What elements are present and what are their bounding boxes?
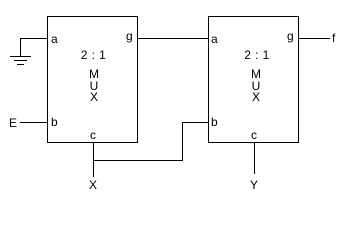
label E <box>9 116 17 130</box>
wire: E to U1 pin b <box>20 122 47 123</box>
label g (U2) <box>287 29 294 43</box>
label X <box>89 178 97 192</box>
mux U1 box <box>47 16 138 143</box>
label c (U1) <box>90 128 96 142</box>
wire: horizontal run X net <box>93 160 183 161</box>
label b (U1) <box>51 115 58 129</box>
label 2:1 (U1) <box>48 48 139 62</box>
wire: U1 g to U2 a <box>138 38 208 39</box>
label f <box>332 31 335 45</box>
label a (U2) <box>211 32 218 46</box>
ground <box>20 38 21 56</box>
mux U2 box <box>208 16 299 143</box>
label Y <box>250 178 258 192</box>
wire: X stub <box>93 160 94 177</box>
wire: up to U2 pin b <box>182 122 183 161</box>
wire: U2 pin c down to Y <box>254 143 255 174</box>
wire: into U2 pin b <box>182 122 208 123</box>
wire: U2 g to f <box>299 38 330 39</box>
wire: ground to U1 pin a <box>20 38 47 39</box>
label c (U2) <box>251 128 257 142</box>
label g (U1) <box>126 29 133 43</box>
label 2:1 (U2) <box>211 48 303 62</box>
label MUX (U2) <box>210 69 302 104</box>
label a (U1) <box>51 32 58 46</box>
label b (U2) <box>211 115 218 129</box>
label MUX (U1) <box>48 69 140 104</box>
wire: U1 pin c down <box>93 143 94 161</box>
